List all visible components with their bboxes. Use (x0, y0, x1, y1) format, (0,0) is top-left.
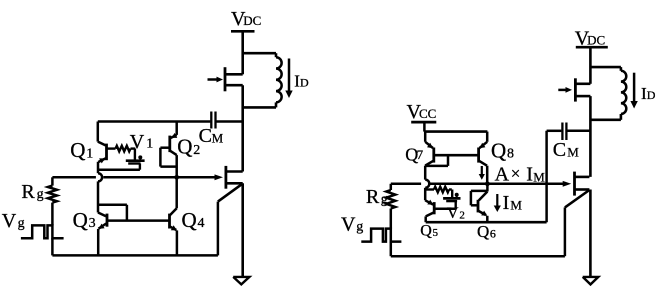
svg-text:V: V (2, 210, 17, 232)
svg-text:CC: CC (419, 106, 436, 121)
svg-text:1: 1 (86, 146, 93, 161)
svg-text:2: 2 (193, 143, 200, 158)
svg-text:A: A (495, 164, 510, 186)
svg-text:V: V (447, 205, 459, 222)
svg-text:I: I (526, 164, 533, 186)
svg-text:V: V (341, 213, 356, 235)
svg-text:g: g (381, 192, 388, 207)
svg-text:4: 4 (198, 216, 205, 231)
svg-text:2: 2 (459, 209, 465, 221)
svg-text:g: g (18, 216, 25, 231)
svg-text:Q: Q (70, 138, 85, 162)
svg-text:R: R (366, 186, 380, 208)
svg-text:C: C (199, 125, 212, 147)
svg-text:×: × (511, 164, 521, 183)
svg-text:6: 6 (490, 226, 496, 240)
svg-text:I: I (503, 192, 510, 214)
svg-text:M: M (212, 130, 224, 145)
svg-text:Q: Q (420, 223, 432, 240)
svg-text:D: D (647, 88, 656, 102)
svg-text:M: M (510, 197, 522, 212)
svg-text:7: 7 (417, 147, 424, 162)
svg-text:D: D (300, 76, 309, 90)
svg-text:Q: Q (491, 138, 506, 162)
svg-text:M: M (567, 145, 579, 160)
svg-text:Q: Q (177, 135, 192, 159)
svg-text:3: 3 (89, 216, 96, 231)
svg-text:8: 8 (507, 147, 514, 162)
svg-text:5: 5 (433, 227, 439, 239)
svg-text:V: V (130, 131, 145, 153)
svg-text:Q: Q (182, 208, 197, 232)
svg-text:g: g (37, 187, 44, 202)
svg-text:M: M (533, 169, 545, 184)
svg-text:1: 1 (146, 137, 153, 152)
svg-text:R: R (21, 181, 35, 203)
svg-text:C: C (553, 139, 566, 161)
svg-text:DC: DC (243, 13, 261, 28)
svg-text:g: g (356, 220, 363, 235)
svg-text:Q: Q (73, 208, 88, 232)
svg-text:DC: DC (587, 33, 605, 48)
svg-text:Q: Q (477, 222, 489, 241)
